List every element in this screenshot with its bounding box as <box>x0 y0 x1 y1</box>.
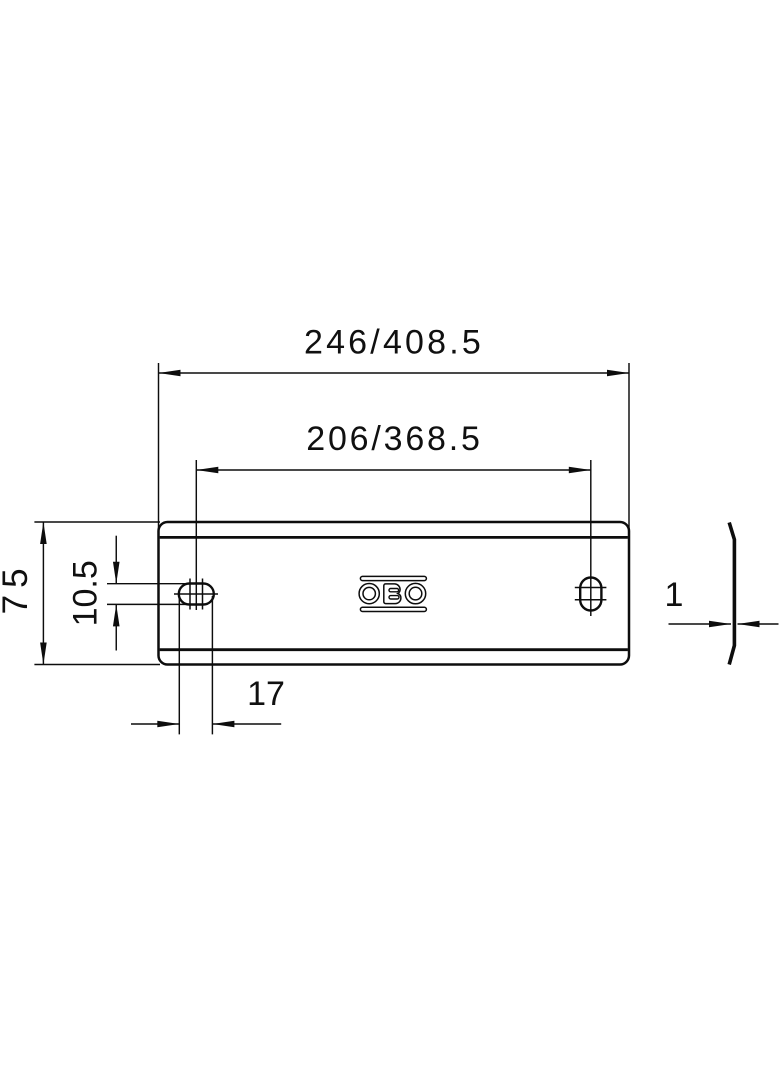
svg-text:17: 17 <box>247 675 285 713</box>
logo letter O1 outer <box>359 584 379 604</box>
extension line 10.5 bottom <box>107 603 191 605</box>
right slot arc-center mark bottom <box>575 599 607 601</box>
dimension 75 arrowhead bottom <box>40 643 47 665</box>
extension line 246 right <box>628 363 630 537</box>
logo letter O1 inner <box>363 587 375 599</box>
right slot arc-center mark top <box>575 587 607 589</box>
logo top bar <box>360 576 426 580</box>
left slot arc-center mark left <box>189 579 191 610</box>
svg-text:246/408.5: 246/408.5 <box>304 324 484 362</box>
svg-text:206/368.5: 206/368.5 <box>306 420 482 458</box>
dimension 1 arrowhead left (points right) <box>709 621 731 628</box>
dimension 10.5 lower line with arrow <box>115 604 117 650</box>
OBO logo <box>359 576 426 611</box>
top fold edge line <box>160 536 628 539</box>
dimension 206/368.5 line <box>196 469 591 471</box>
logo letter B lower counter <box>389 596 399 599</box>
dimension 17 left line with arrow <box>131 723 179 725</box>
right slot hole vertical <box>580 578 601 611</box>
dimension 17 right line with arrow <box>212 723 281 725</box>
svg-text:1: 1 <box>665 576 684 614</box>
dimension 1 left line with arrow <box>669 623 732 625</box>
svg-text:75: 75 <box>0 561 35 614</box>
dimension 10.5 upper line with arrow <box>115 536 117 584</box>
extension line 246 left <box>158 363 160 537</box>
dimension 75 line <box>42 522 44 665</box>
side view profile (1 mm plate) <box>729 523 734 665</box>
svg-text:10.5: 10.5 <box>67 560 105 626</box>
logo letter B upper counter <box>389 589 399 592</box>
dimension 1 arrowhead right (points left) <box>738 621 760 628</box>
logo letter O2 outer <box>405 583 425 603</box>
left slot horizontal centerline <box>174 593 218 595</box>
dimension 10.5 arrowhead lower (points up) <box>113 604 120 626</box>
extension line 17 right <box>211 596 213 734</box>
extension line 75 top <box>34 521 160 523</box>
logo bottom bar <box>360 607 426 611</box>
dimension 206/368.5 arrowhead right <box>569 467 591 474</box>
logo letter O2 inner <box>409 587 422 600</box>
dimension 246/408.5 arrowhead left <box>159 370 181 377</box>
dimension 17 arrowhead right (points left) <box>212 721 234 728</box>
logo letter B outer contour <box>384 584 401 604</box>
dimension 206/368.5 arrowhead left <box>196 467 218 474</box>
extension line 10.5 top <box>107 583 191 585</box>
dimension 10.5 arrowhead upper (points down) <box>113 562 120 584</box>
extension line 75 bottom <box>34 664 160 666</box>
left slot arc-center mark right <box>202 579 204 610</box>
dimension 1 right line with arrow <box>738 623 779 625</box>
plate outline (front view) <box>159 522 630 665</box>
dimension 246/408.5 line <box>159 372 630 374</box>
extension line 17 left <box>178 596 180 734</box>
dimension 17 arrowhead left (points right) <box>157 721 179 728</box>
left slot hole 17x10.5 <box>179 584 214 605</box>
dimension 75 arrowhead top <box>40 522 47 544</box>
dimension 246/408.5 arrowhead right <box>607 370 629 377</box>
extension / centerline left hole <box>195 460 197 610</box>
bottom fold edge line <box>160 648 628 651</box>
extension / centerline right hole <box>590 460 592 616</box>
